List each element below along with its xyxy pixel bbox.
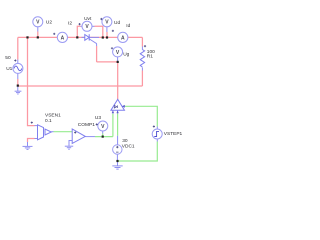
svg-text:U1: U1 [6,66,12,72]
voltmeter Uvt [82,21,92,31]
pin VSTEP1 top [156,127,158,130]
pin U3 stem [102,131,104,133]
svg-text:30: 30 [122,138,128,144]
svg-text:50: 50 [5,55,11,61]
svg-text:Ug: Ug [123,52,129,58]
pin VSEN1 ground stem [27,142,29,146]
resistor R1 [140,50,144,68]
wire VSEN1 plus feed [28,37,35,125]
svg-text:VSEN1: VSEN1 [45,113,61,119]
ground COMP1 [65,146,73,149]
wire top rail [18,36,143,38]
svg-text:A: A [61,35,65,41]
svg-text:COMP1: COMP1 [78,122,95,128]
svg-text:0.1: 0.1 [45,118,52,124]
source VDC1 [113,145,122,154]
plus VSEN1 [31,122,33,124]
pin R1 bottom [141,68,143,71]
wire U3 stem green [102,134,104,137]
wire Uvt right tap [95,26,103,37]
pin Uvt right [92,25,95,27]
svg-text:A: A [121,35,125,41]
wire U1 top column [17,37,19,59]
pin U1 ground stem [17,86,19,91]
wire right leg green down [117,114,119,136]
plus markers [14,18,155,134]
source U1 [13,63,23,73]
trigger inner mark [114,105,117,108]
plus U3 [96,123,98,125]
ammeter Id [118,32,128,42]
svg-text:Ud: Ud [114,20,120,26]
pin COMP1 minus stub [69,141,72,146]
plus I2 [53,33,55,35]
svg-text:Id: Id [126,23,130,29]
svg-text:U3: U3 [95,115,101,121]
trigger leg arrowheads [112,105,125,113]
source VSTEP1 [152,129,162,139]
plus Id [112,30,114,32]
svg-text:VSTEP1: VSTEP1 [164,131,183,137]
trigger gate arrowhead [122,105,125,108]
plus COMP1 [74,131,76,133]
pin Uvt left [81,25,83,27]
pin thyristor gate [89,39,96,46]
wire VSEN1 minus to ground [28,139,35,143]
wire gate vertical [96,46,98,62]
wire gate horizontal to Ug junction [97,61,118,63]
junction dots [17,36,119,162]
pin U1 bottom [17,73,19,79]
voltmeter Ug [113,47,123,57]
pin VSTEP1 bottom [156,139,158,142]
voltmeter Ud [102,17,112,27]
plus VSTEP1 [153,125,155,127]
pin thyristor cathode [89,36,99,38]
ground U1 [15,91,22,94]
plus Ug [111,47,113,49]
wire COMP1 output green [95,136,113,138]
pin VSEN1 minus [35,138,38,140]
pin Ug stem [117,57,119,62]
trigger unit [111,99,125,113]
comparator COMP1 [72,129,85,143]
pin U1 top [17,60,19,64]
wire to VDC1 blue [117,136,119,145]
wire U2 stem lower [37,32,39,38]
ammeter I2 [57,32,67,42]
pin thyristor anode [82,36,85,38]
pin R1 top [141,47,143,50]
thyristor [85,34,89,40]
plus Ud [100,18,102,20]
wire VSTEP1 bottom green [118,142,158,162]
pin Ud stem [106,27,108,32]
wire Ud stem lower [106,32,108,37]
svg-text:VDC1: VDC1 [122,144,135,150]
plus R1 [144,45,146,47]
pins violet [18,26,158,166]
pin VSEN1 plus [35,125,38,127]
wire R1 bottom column [141,71,143,87]
ground VDC1 [112,166,122,169]
plus Uvt [79,23,81,25]
wire left leg green up [112,114,114,137]
wire R1 top column [141,37,143,46]
svg-text:U2: U2 [46,19,52,25]
svg-text:Uvt: Uvt [84,16,92,22]
svg-text:R1: R1 [147,54,153,60]
voltmeter U3 [98,121,108,131]
wire trigger right to VSTEP1 top green [125,106,158,126]
VSEN1 body [38,125,52,140]
pin VDC1 bottom [116,154,118,161]
pin COMP1 out [85,136,95,138]
ground VSEN1 [23,146,33,149]
wire VSEN1 output green [54,131,73,133]
svg-text:I2: I2 [68,21,72,27]
voltmeter U2 [33,17,43,27]
pin VSEN1 out [51,131,53,133]
wire Ug junction down to trigger apex [117,62,119,100]
plus U1 [14,59,16,61]
wire bottom rail [18,85,143,87]
pin U2 stem [37,27,39,32]
wire Uvt left tap [77,26,80,37]
wire U1 bottom to rail [17,79,19,86]
pin VDC1 ground stem [117,161,119,166]
